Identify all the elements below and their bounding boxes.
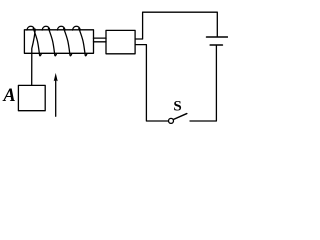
svg-text:A: A — [2, 86, 15, 106]
svg-text:S: S — [173, 99, 181, 115]
